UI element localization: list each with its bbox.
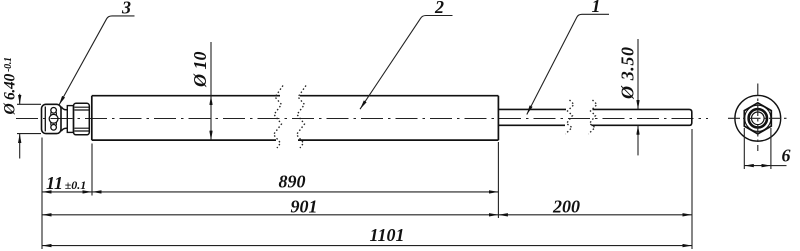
dimension 11 +-0.1: [42, 191, 92, 193]
svg-text:Ø 3.50: Ø 3.50: [618, 46, 638, 100]
svg-text:200: 200: [552, 196, 580, 216]
svg-text:1: 1: [592, 0, 601, 16]
fitting collar: [67, 106, 73, 133]
rod break zigzag left: [566, 100, 575, 134]
svg-text:±0.1: ±0.1: [65, 178, 87, 192]
end view hex inscribed circle: [745, 105, 771, 131]
balloon 1 leader: [527, 14, 609, 114]
svg-text:901: 901: [291, 197, 318, 217]
svg-text:3: 3: [121, 0, 131, 17]
dia 6.40 extension lines: [17, 104, 41, 133]
tube break zigzag left: [274, 86, 284, 149]
extension line left tip x=42: [41, 138, 43, 250]
end view outer circle: [735, 95, 781, 141]
svg-text:11: 11: [46, 173, 63, 193]
end view hex nut: [744, 103, 771, 134]
dimension 200: [498, 214, 692, 216]
end view horizontal centerline: [728, 117, 788, 119]
fitting crimp section: [74, 103, 90, 135]
tube break zigzag right: [297, 86, 307, 149]
dimension 1101: [42, 245, 692, 247]
svg-text:890: 890: [279, 172, 306, 192]
extension line tube start x=92: [91, 144, 93, 196]
fitting neck: [61, 107, 67, 132]
dimension 901: [42, 214, 498, 216]
end fitting (part 3) ball housing: [42, 104, 62, 133]
svg-text:Ø 10: Ø 10: [190, 52, 210, 89]
svg-text:2: 2: [434, 0, 444, 17]
dimension 6 line: [744, 165, 771, 167]
end view vertical centerline: [757, 84, 759, 152]
dimension 890: [92, 191, 498, 193]
end view inner circle: [752, 112, 765, 125]
svg-text:1101: 1101: [369, 225, 404, 245]
end view bold circle: [749, 109, 767, 127]
tube body (part 2) outline: [92, 96, 499, 140]
balloon 2 leader: [360, 16, 453, 110]
dia 10 dimension line: [210, 42, 212, 96]
balloon 3 leader: [59, 16, 135, 105]
svg-text:6: 6: [782, 146, 791, 166]
extension line rod end x=692: [691, 129, 693, 249]
dimension 6 extension lines: [744, 128, 771, 169]
dia 3.50 dimension line: [637, 39, 639, 109]
main centerline: [16, 118, 708, 120]
dia 6.40 dimension arrows: [19, 94, 21, 105]
rod break zigzag right: [589, 100, 598, 134]
rod (part 1) outline: [498, 109, 691, 125]
extension line tube end x=498.4: [497, 142, 499, 218]
